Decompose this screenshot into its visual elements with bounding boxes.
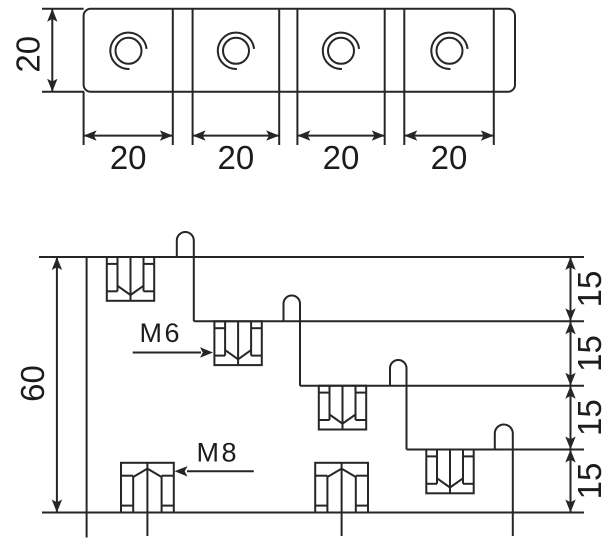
nut insert M6 (hanging, step 2) [214,321,261,365]
tab 2 with step drop [284,295,301,385]
tab 1 with step drop [177,232,194,321]
threaded hole 3 [323,33,359,69]
side view step line 2 [194,320,584,322]
nut insert 3 (hanging, step 3) [319,386,366,430]
svg-text:20: 20 [110,139,147,176]
dimension 20 #4 [404,130,494,140]
dimension 20 #2 [193,130,280,140]
svg-text:M6: M6 [140,318,183,348]
svg-text:15: 15 [571,335,608,372]
nut M8 #2 (standing, bottom) [315,463,368,536]
top view bar outline [84,9,515,92]
svg-text:15: 15 [571,463,608,500]
side view step line 4 [407,449,585,451]
dimension 15 #3 [565,386,575,450]
side view step line 3 [300,385,584,387]
dimension 20 #3 [297,130,384,140]
svg-text:60: 60 [14,365,51,402]
svg-text:20: 20 [218,139,255,176]
dimension 20 #1 (below bar) [84,130,173,140]
svg-text:20: 20 [9,36,46,73]
label M8 with leader arrow [175,466,254,476]
svg-text:M8: M8 [197,437,240,467]
side view bottom line [42,512,584,514]
nut insert 1 (hanging, step 1) [107,257,154,301]
side view step line 1 (top) [39,256,584,258]
svg-text:20: 20 [323,139,360,176]
label M6 with leader arrow [133,347,213,357]
svg-text:15: 15 [571,399,608,436]
threaded hole 4 [431,33,467,69]
threaded hole 2 [218,33,254,69]
tab 3 with step drop [390,360,407,450]
nut M8 #1 (standing, bottom) [121,463,174,536]
side view left edge [86,257,88,538]
dimension 15 #1 (right) [565,257,575,321]
tab 4 with right edge [495,425,513,537]
dimension 60 (left of side view) [52,257,62,513]
svg-text:20: 20 [431,139,468,176]
svg-text:15: 15 [571,271,608,308]
vertical dimension 20 (left of top view) [42,9,84,92]
nut insert 4 (hanging, step 4) [426,450,473,494]
dimension 15 #4 [565,450,575,513]
dimension 15 #2 [565,321,575,385]
threaded hole 1 [110,33,146,69]
pad separator lines / extension lines [172,9,174,145]
